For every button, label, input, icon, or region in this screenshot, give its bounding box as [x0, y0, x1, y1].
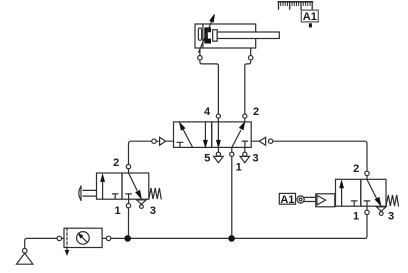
5/2 valve right square [212, 122, 252, 147]
right 3/2 valve port 1 circle [366, 206, 368, 210]
left 3/2 valve port 1 circle [128, 199, 130, 203]
wire 5/2 left pilot to left valve port 2 [129, 141, 152, 164]
right 3/2 valve port 3 exhaust [376, 207, 386, 211]
5/2 right pneumatic pilot [251, 140, 259, 142]
right 3/2 valve vertical flow arrow [341, 188, 343, 206]
service unit regulator arrow [82, 237, 88, 243]
5/2 right square blocked port T [242, 141, 248, 147]
right 3/2 valve left square [336, 179, 361, 206]
svg-text:2: 2 [253, 106, 259, 118]
5/2 right square diagonal flow arrow 1-2 [232, 131, 241, 148]
wire 5/2 port 1 down to bus junction [231, 156, 233, 238]
right 3/2 valve return spring [386, 195, 399, 206]
svg-text:A1: A1 [280, 194, 294, 206]
5/2 valve left square [174, 122, 212, 147]
cylinder right port stub [250, 48, 252, 56]
svg-text:1: 1 [115, 205, 121, 217]
cylinder left port circle [198, 56, 202, 60]
left 3/2 valve right square [122, 173, 149, 199]
service unit condensate drain arrow [66, 248, 68, 251]
cylinder right port circle [249, 56, 253, 60]
right 3/2 valve right square [361, 179, 386, 206]
right 3/2 valve diagonal flow arrow 2-3 [367, 180, 376, 198]
cylinder cushioning adjust arrow [199, 21, 212, 52]
svg-text:1: 1 [236, 162, 242, 174]
distance rule major ticks [279, 2, 313, 10]
right 3/2 valve port 2 circle [365, 171, 369, 175]
service unit regulator circle [77, 232, 90, 245]
distance rule top bar [278, 1, 312, 3]
5/2 left square blocked port T [177, 142, 183, 147]
right 3/2 valve roller [297, 196, 304, 203]
distance rule A1 marker box [301, 10, 318, 22]
5/2 port 1 connection [231, 147, 233, 152]
right 3/2 valve roller rod [304, 197, 316, 201]
wire left valve port 1 down to bus junction [128, 208, 130, 239]
right 3/2 valve actuator box with pilot triangle [316, 194, 335, 207]
wire cylinder left port to valve port 4 [200, 60, 219, 114]
5/2 left square diagonal flow arrow [183, 130, 192, 148]
5/2 port 4 connection [217, 118, 219, 122]
left 3/2 valve port 3 exhaust [137, 200, 147, 204]
right 3/2 valve blocked T left square [351, 201, 357, 206]
svg-text:A1: A1 [303, 11, 317, 23]
wire bus from service unit to right valve port 1 [111, 215, 367, 239]
svg-text:3: 3 [388, 210, 394, 222]
left 3/2 valve left square [97, 173, 123, 199]
compressed air source [22, 248, 27, 253]
left 3/2 valve port 2 circle [126, 164, 130, 168]
right 3/2 valve blocked T above port 1 [364, 201, 370, 206]
junction dot middle [228, 235, 235, 242]
left 3/2 valve diagonal flow arrow 2-3 [129, 173, 137, 190]
svg-text:5: 5 [204, 153, 210, 165]
wire 5/2 right pilot to right valve port 2 [273, 141, 367, 171]
5/2 right square vertical flow arrow 4-5 [217, 122, 219, 141]
left 3/2 valve return spring [149, 188, 161, 199]
left 3/2 valve blocked T left square [112, 194, 118, 199]
service unit left port stub [62, 237, 65, 239]
cylinder rod collar [213, 30, 218, 42]
right 3/2 valve roller actuator A1 label box [279, 193, 295, 204]
5/2 left pneumatic pilot [152, 139, 156, 143]
svg-text:1: 1 [353, 210, 359, 222]
svg-text:2: 2 [113, 157, 119, 169]
left 3/2 valve blocked T above port 1 [126, 194, 132, 199]
service unit filter dashed line [66, 228, 68, 247]
wire cylinder right port to valve port 2 [245, 60, 251, 114]
svg-text:2: 2 [353, 163, 359, 175]
distance rule minor ticks [281, 2, 310, 6]
cylinder left port stub [199, 48, 201, 56]
left 3/2 valve vertical flow arrow [102, 182, 104, 200]
service unit body [64, 228, 102, 247]
left 3/2 valve pushbutton [83, 190, 97, 196]
5/2 port 2 connection [244, 118, 246, 122]
5/2 left square vertical flow arrow [204, 122, 206, 141]
distance rule marker square [309, 23, 312, 27]
cylinder piston rod [217, 32, 279, 39]
service unit left port circle [57, 236, 61, 240]
wire air source to service unit [25, 238, 57, 248]
svg-text:3: 3 [253, 153, 259, 165]
cylinder cushion sleeve [198, 28, 201, 40]
5/2 port 3 exhaust [244, 147, 246, 152]
service unit right port circle [106, 236, 110, 240]
service unit right port stub [102, 237, 106, 239]
svg-text:3: 3 [150, 205, 156, 217]
5/2 port 5 exhaust [217, 147, 219, 152]
cylinder piston line [202, 24, 204, 48]
junction dot left [124, 235, 131, 242]
cylinder body [195, 24, 256, 48]
svg-text:4: 4 [204, 106, 211, 118]
cylinder piston magnet (black) [204, 27, 211, 43]
